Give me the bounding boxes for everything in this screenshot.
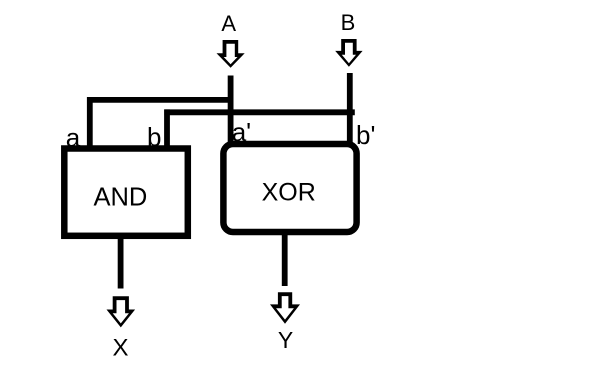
- svg-text:b: b: [147, 122, 161, 152]
- svg-text:A: A: [221, 11, 236, 36]
- svg-text:Y: Y: [278, 327, 293, 353]
- wire drop to b input: [164, 109, 170, 151]
- wire A branch horizontal: [87, 97, 234, 103]
- XOR gate box: [223, 144, 356, 232]
- wire AND output: [118, 234, 124, 289]
- AND gate box: [64, 149, 188, 236]
- wire drop to a input: [87, 97, 93, 152]
- wire B branch horizontal: [164, 109, 354, 115]
- svg-text:B: B: [341, 10, 356, 35]
- wire A vertical to a': [228, 76, 234, 147]
- output block arrow Y: [270, 292, 300, 323]
- wire B vertical to b': [347, 73, 353, 146]
- input block arrow B: [335, 39, 362, 67]
- svg-text:a: a: [66, 123, 81, 153]
- svg-text:X: X: [112, 334, 128, 361]
- svg-text:a': a': [232, 117, 251, 147]
- svg-text:XOR: XOR: [262, 178, 316, 206]
- svg-text:AND: AND: [93, 184, 147, 212]
- output block arrow X: [107, 296, 136, 327]
- input block arrow A: [217, 40, 245, 68]
- wire XOR output: [282, 230, 288, 286]
- svg-text:b': b': [356, 120, 375, 150]
